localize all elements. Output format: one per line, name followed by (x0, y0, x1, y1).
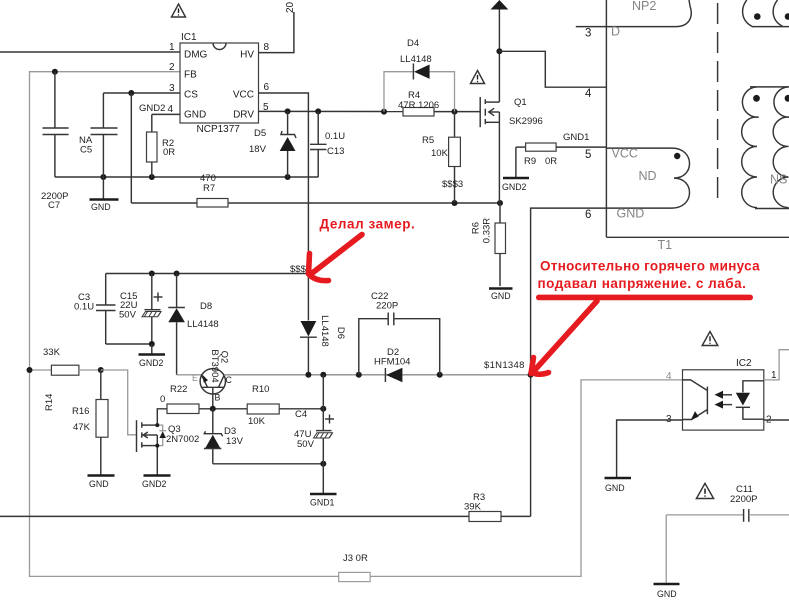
warning triangle top-left (172, 4, 186, 17)
svg-text:R9: R9 (524, 156, 536, 167)
svg-text:4: 4 (168, 104, 174, 115)
optocoupler IC2 box (683, 358, 764, 430)
svg-text:D8: D8 (200, 301, 212, 312)
resistor R16 47K (72, 370, 108, 475)
svg-text:GND: GND (605, 483, 625, 493)
svg-text:BT3904: BT3904 (209, 349, 220, 382)
svg-text:IC2: IC2 (736, 358, 752, 369)
svg-text:GND1: GND1 (310, 498, 335, 508)
svg-text:D4: D4 (407, 38, 419, 49)
svg-text:Делал замер.: Делал замер. (320, 217, 416, 232)
wire Q2 emitter from D8 (grey) (177, 374, 203, 376)
svg-text:0.33R: 0.33R (482, 218, 493, 243)
svg-text:LL4148: LL4148 (187, 319, 219, 330)
svg-text:1: 1 (169, 42, 175, 53)
svg-text:10K: 10K (431, 148, 449, 159)
warning triangle near C11 (696, 483, 713, 498)
svg-text:47R 1206: 47R 1206 (398, 100, 439, 111)
svg-text:C5: C5 (80, 145, 92, 156)
svg-text:GND: GND (491, 291, 511, 301)
svg-text:C: C (226, 375, 233, 385)
wire IC2 pin1 (grey) (764, 350, 789, 380)
diode D4 LL4148 (400, 38, 432, 80)
svg-text:GND: GND (89, 479, 109, 489)
node FB junction (52, 69, 58, 75)
svg-text:NS: NS (770, 173, 787, 187)
svg-text:GND: GND (617, 207, 645, 221)
resistor R2 0R (147, 132, 176, 162)
wire R22/R10 base rail (157, 406, 326, 425)
svg-text:47K: 47K (73, 422, 91, 433)
wire FB net (grey): pin2, left column, bottom J3 rail, riser to IC2 pin4 (30, 72, 683, 577)
IC2 internal phototransistor (683, 380, 708, 421)
ground GND under IC2 pin3 (605, 478, 632, 493)
svg-text:50V: 50V (297, 439, 315, 450)
svg-text:20: 20 (285, 1, 296, 13)
svg-text:T1: T1 (658, 238, 673, 252)
svg-text:$1N1348: $1N1348 (484, 360, 525, 371)
svg-text:5: 5 (585, 149, 591, 161)
svg-text:C7: C7 (48, 200, 60, 211)
svg-text:33K: 33K (43, 347, 61, 358)
svg-text:0: 0 (160, 394, 165, 405)
svg-text:C13: C13 (327, 146, 344, 157)
svg-text:LL4148: LL4148 (400, 54, 432, 65)
svg-text:IC1: IC1 (181, 32, 197, 43)
svg-text:3: 3 (585, 28, 591, 40)
ground GND under R16 (88, 476, 115, 490)
svg-text:GND2: GND2 (142, 479, 167, 489)
ground GND2 under Q3 (142, 476, 171, 490)
winding NP2 (606, 0, 691, 39)
net label 20 (rotated, cut at top) (285, 1, 296, 13)
capacitor C13 0.1U (310, 111, 345, 177)
transformer core dashed line (717, 3, 719, 205)
svg-text:D: D (611, 25, 620, 39)
wire current-sense rail y=203 (131, 200, 503, 206)
resistor R10 10K (247, 384, 279, 427)
capacitor C5 (79, 93, 118, 177)
svg-text:C4: C4 (295, 409, 307, 420)
svg-text:0.1U: 0.1U (325, 131, 345, 142)
resistor R9 0R (516, 132, 607, 167)
svg-text:4: 4 (666, 371, 672, 382)
capacitor C15 22U 50V (electrolytic) (119, 274, 163, 345)
op-amp IC1 NCP1377 box (180, 32, 259, 135)
capacitor C4 47U 50V (electrolytic) (294, 375, 334, 464)
svg-text:13V: 13V (226, 436, 244, 447)
resistor R14 33K (27, 347, 104, 411)
svg-text:GND: GND (657, 589, 677, 599)
capacitor C11 2200P (666, 484, 789, 522)
svg-text:8: 8 (264, 42, 270, 53)
wire D4 bypass loop (grey) (384, 72, 455, 112)
svg-text:18V: 18V (249, 144, 267, 155)
svg-text:E: E (192, 373, 198, 383)
svg-text:R22: R22 (170, 384, 187, 395)
red arrow 1 (309, 235, 363, 281)
transformer T1 box (606, 0, 789, 252)
zener D3 13V (204, 409, 244, 464)
IC2 internal LED (736, 381, 764, 419)
zener D5 18V (249, 111, 296, 177)
svg-text:GND: GND (91, 202, 111, 212)
wire VCC pin6 down to $$$ node (259, 93, 309, 274)
wire Q1 drain riser and top arrow (491, 0, 607, 102)
svg-text:LL4148: LL4148 (319, 315, 330, 347)
warning triangle near Q1 (471, 71, 485, 84)
wire D3-C4 ground rail (213, 461, 326, 467)
svg-text:R16: R16 (72, 406, 89, 417)
svg-text:220P: 220P (376, 301, 398, 312)
svg-text:DMG: DMG (184, 50, 208, 61)
red annotation 2 (536, 259, 760, 301)
winding ND (606, 147, 689, 221)
svg-text:10K: 10K (248, 416, 266, 427)
ground GND under C11 (654, 515, 680, 599)
svg-text:GND2: GND2 (139, 103, 165, 114)
svg-text:SK2996: SK2996 (509, 116, 543, 127)
secondary winding NS column A (742, 87, 789, 208)
resistor R7 470 (197, 173, 228, 207)
svg-text:39K: 39K (464, 502, 482, 513)
pin numbers IC1 (139, 42, 270, 115)
IC2 light arrows (715, 391, 733, 409)
wire collector rail to $1N1348 (224, 372, 534, 378)
svg-text:R10: R10 (252, 384, 269, 395)
svg-text:DRV: DRV (233, 110, 254, 121)
wire GND rail y=177 (55, 174, 318, 180)
resistor R4 47R 1206 (398, 90, 439, 116)
svg-text:GND2: GND2 (502, 182, 527, 192)
svg-text:FB: FB (184, 70, 197, 81)
diode D8 LL4148 (168, 274, 218, 375)
svg-text:Q1: Q1 (514, 97, 527, 108)
svg-text:D6: D6 (335, 327, 346, 339)
svg-text:подавал напряжение. с лаба.: подавал напряжение. с лаба. (538, 276, 747, 291)
svg-text:GND2: GND2 (139, 358, 164, 368)
svg-text:3: 3 (169, 83, 175, 94)
svg-text:R7: R7 (203, 183, 215, 194)
svg-text:B: B (215, 393, 221, 403)
ground GND under R6 (489, 289, 513, 302)
ground GND1 under C4 (310, 464, 337, 508)
svg-text:J3 0R: J3 0R (343, 553, 368, 564)
secondary winding top caps with dots (743, 0, 789, 27)
resistor R6 0.33R (471, 203, 506, 286)
svg-text:6: 6 (585, 209, 591, 221)
svg-text:GND: GND (184, 110, 206, 121)
wire C7 column (54, 72, 56, 177)
wire pin1 DMG to left edge (0, 51, 180, 53)
red arrow 2 (531, 301, 597, 374)
node $1N1348 (484, 360, 525, 371)
svg-text:2: 2 (169, 62, 175, 73)
transistor Q2 BT3904 (192, 349, 233, 408)
svg-text:$$$: $$$ (290, 264, 307, 275)
svg-text:R14: R14 (44, 394, 55, 411)
wire C3/C15 ground rail (106, 341, 155, 347)
diode D6 LL4148 (300, 274, 346, 375)
svg-text:0R: 0R (163, 147, 175, 158)
wire T1 pin6 hot-rail column (531, 208, 607, 516)
wire CS pin3 (103, 90, 180, 203)
svg-text:D5: D5 (254, 128, 266, 139)
svg-text:VCC: VCC (233, 90, 254, 101)
svg-text:R5: R5 (422, 135, 434, 146)
wire pin4 to R2 (152, 114, 180, 177)
svg-text:0R: 0R (545, 156, 557, 167)
svg-text:NCP1377: NCP1377 (197, 124, 241, 135)
svg-text:R6: R6 (471, 222, 482, 234)
ground GND2 under R9 (502, 147, 529, 192)
svg-text:GND1: GND1 (563, 132, 589, 143)
pin labels T1 4 5 (585, 88, 592, 161)
svg-text:HV: HV (240, 50, 254, 61)
wire IC2 pin3 to GND (617, 420, 683, 478)
svg-text:6: 6 (264, 82, 270, 93)
resistor R5 10K (422, 112, 460, 203)
capacitor C7 (41, 128, 69, 211)
resistor R3 39K (0, 492, 531, 522)
node $$$3 (442, 179, 463, 190)
svg-text:0.1U: 0.1U (74, 302, 94, 313)
svg-text:50V: 50V (119, 310, 137, 321)
svg-text:4: 4 (585, 88, 592, 100)
ground GND2 under C15 (139, 344, 166, 368)
red annotation 1: Делал замер. (320, 217, 416, 232)
wire T1 pin3 (576, 27, 607, 40)
ground GND under C5 (90, 177, 119, 212)
wire DRV pin5 (259, 108, 481, 114)
svg-text:ND: ND (639, 169, 657, 183)
warning triangle above IC2 (702, 332, 718, 346)
capacitor C22 220P with bracket wires (359, 291, 440, 375)
resistor R22 0 (160, 384, 199, 414)
wire HV pin8 riser (259, 12, 294, 53)
resistor J3 0R (339, 553, 370, 582)
capacitor C3 0.1U (74, 274, 116, 345)
IC2 pin numbers (666, 370, 777, 426)
diode D2 HFM104 (374, 347, 410, 382)
transistor Q3 2N7002 (101, 370, 199, 475)
secondary winding NS column B (755, 87, 789, 209)
svg-text:HFM104: HFM104 (374, 357, 410, 368)
svg-text:CS: CS (184, 90, 198, 101)
svg-text:2200P: 2200P (730, 494, 757, 505)
svg-text:$$$3: $$$3 (442, 179, 463, 190)
svg-text:2N7002: 2N7002 (166, 434, 199, 445)
wire IC2 pin2 (764, 419, 789, 421)
transistor Q1 SK2996 (480, 97, 543, 203)
svg-text:Относительно горячего минуса: Относительно горячего минуса (540, 259, 760, 274)
node $$$ and D6 column (106, 264, 309, 277)
svg-text:VCC: VCC (612, 147, 638, 161)
svg-text:NP2: NP2 (632, 0, 656, 13)
